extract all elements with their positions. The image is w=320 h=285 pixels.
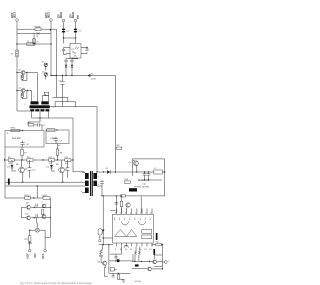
diode D4 bbox=[51, 160, 53, 165]
wire T1 top pins bbox=[43, 96, 49, 102]
wire into IC left bbox=[103, 237, 113, 239]
terminal J4 bbox=[74, 19, 77, 22]
resistor R21 bbox=[156, 243, 162, 245]
terminal J8 bbox=[164, 261, 167, 264]
wire U1 right pins bbox=[81, 48, 87, 54]
SECTION: oscillator bbox=[4, 144, 85, 199]
SECTION: AC input bbox=[11, 11, 57, 97]
winding T2 left b bbox=[85, 181, 89, 186]
wire mid bus bbox=[53, 97, 76, 106]
terminal J2 (neutral) bbox=[50, 19, 53, 22]
wire row218 bbox=[21, 217, 50, 219]
capacitor C4 bbox=[62, 49, 65, 50]
wire J4 down bbox=[75, 22, 77, 44]
wire U1 left pins bbox=[64, 48, 71, 54]
capacitor C24 bbox=[36, 214, 37, 217]
capacitor C11 bbox=[67, 160, 69, 178]
svg-text:12V: 12V bbox=[59, 14, 61, 19]
wire row268 vertical bbox=[132, 254, 134, 261]
capacitor C6 bbox=[62, 76, 64, 107]
svg-text:Tx: Tx bbox=[89, 199, 91, 201]
wire P1 feed bbox=[36, 218, 39, 228]
resistor R22 bbox=[100, 250, 103, 255]
terminal J6 bbox=[44, 249, 47, 252]
shield box bbox=[133, 159, 165, 176]
svg-text:s: s bbox=[168, 260, 169, 262]
capacitor C10 bbox=[29, 160, 31, 178]
resistor R11 bbox=[49, 159, 55, 161]
transistor Q4 bbox=[59, 167, 65, 173]
wire T1 bottom pins bbox=[32, 111, 49, 118]
wire osc right feed bbox=[73, 160, 85, 172]
core T1 bbox=[30, 105, 50, 108]
node B+ arrow bbox=[87, 74, 90, 77]
svg-text:SP.VMC BP.VMC: SP.VMC BP.VMC bbox=[134, 186, 150, 188]
connector blob2 bbox=[135, 264, 139, 266]
capacitor C27 bbox=[153, 249, 155, 255]
SECTION: driver transistors bbox=[16, 44, 47, 111]
resistor R13 bbox=[43, 197, 50, 199]
resistor R17 bbox=[29, 236, 31, 241]
wire J1 down bbox=[16, 22, 18, 45]
SECTION: rectifier and B+ bbox=[50, 29, 122, 173]
resistor R7 bbox=[21, 149, 23, 155]
wire center tap down bbox=[39, 118, 41, 122]
wire J3 down bbox=[63, 22, 65, 44]
svg-text:+12V: +12V bbox=[28, 253, 30, 259]
transistor Q13 bbox=[126, 203, 130, 207]
opamp triangles bbox=[115, 230, 127, 237]
svg-text:ERR.AMP: ERR.AMP bbox=[12, 137, 22, 140]
wire sec rail bbox=[32, 118, 74, 160]
wire drive B bbox=[5, 185, 85, 187]
wire Q2 collector bbox=[25, 91, 31, 102]
resistor R12 bbox=[65, 159, 71, 161]
SECTION: caption bbox=[20, 281, 92, 285]
wire rail3 bbox=[17, 43, 51, 45]
capacitor C2 bbox=[62, 29, 65, 30]
capacitor C3 bbox=[74, 29, 77, 30]
capacitor C13 bbox=[147, 174, 151, 176]
wire link bbox=[64, 37, 76, 39]
transistor Q5 bbox=[134, 161, 139, 166]
trimmer P2 bbox=[99, 240, 101, 242]
wire T2 left pins bbox=[82, 173, 85, 193]
capacitor C22 bbox=[8, 179, 10, 185]
wire drive A bbox=[5, 181, 85, 183]
trimmer P1 bbox=[35, 228, 39, 232]
SECTION: bottom right bbox=[97, 159, 169, 283]
winding T2 right b bbox=[93, 181, 97, 186]
transistor Q6 bbox=[102, 261, 106, 265]
svg-text:SECT: SECT bbox=[49, 11, 51, 18]
wire row261 bbox=[109, 260, 133, 262]
diode D12 bbox=[65, 65, 67, 68]
SECTION: IC U2 bbox=[98, 179, 153, 251]
wire pin1 feed bbox=[115, 196, 117, 213]
wire bottom edge bbox=[101, 195, 165, 197]
diode D3 bbox=[11, 160, 13, 165]
wire out bus bbox=[110, 171, 164, 173]
wire row198 bbox=[5, 197, 50, 199]
wire row207 bbox=[21, 206, 50, 208]
wire row254 bbox=[110, 253, 122, 255]
capacitor C18 bbox=[115, 202, 119, 204]
capacitor C21 bbox=[64, 60, 67, 62]
wire rail2 bbox=[17, 33, 51, 35]
capacitor C26 bbox=[124, 246, 128, 248]
winding T2 right a bbox=[93, 173, 97, 179]
capacitor C25 bbox=[99, 255, 102, 256]
transistor Q14 bbox=[98, 229, 102, 235]
capacitor C19 bbox=[112, 276, 115, 277]
wire row244 bbox=[99, 244, 113, 246]
transistor Q11 bbox=[27, 216, 31, 220]
wire B+ to right bbox=[90, 76, 115, 173]
box volt ref bbox=[46, 130, 69, 144]
capacitor C28 bbox=[70, 60, 73, 62]
capacitor C9 bbox=[54, 139, 58, 141]
ground G2 bbox=[122, 280, 126, 283]
svg-text:REG.: REG. bbox=[11, 128, 16, 130]
terminal J1 (line) bbox=[16, 19, 19, 22]
wire bus268 bbox=[132, 267, 147, 269]
transistor Q3 bbox=[19, 167, 25, 173]
svg-text:12V: 12V bbox=[71, 14, 73, 19]
capacitor C16 bbox=[28, 242, 32, 243]
svg-text:B+ 14+ OV: B+ 14+ OV bbox=[138, 180, 149, 182]
box error amp bbox=[5, 131, 44, 148]
resistor R2 bbox=[21, 75, 23, 79]
wire gnd bus bbox=[138, 179, 162, 181]
wire left feed bbox=[17, 110, 30, 112]
resistor R10 bbox=[27, 159, 33, 161]
resistor R8 bbox=[56, 149, 58, 155]
winding T2 left c bbox=[85, 188, 89, 194]
wire Q1 collector bbox=[25, 73, 37, 102]
svg-text:14.0.01: 14.0.01 bbox=[135, 281, 143, 283]
svg-text:OV.C: OV.C bbox=[43, 253, 45, 259]
capacitor C12 bbox=[143, 174, 147, 176]
wire P1 right to J6 bbox=[40, 230, 51, 249]
winding T1 secondary bbox=[30, 109, 34, 111]
terminal J7 bbox=[28, 249, 31, 252]
wire left edge down bbox=[4, 147, 6, 198]
diode D5 bbox=[107, 170, 110, 174]
resistor R1 bbox=[16, 50, 18, 57]
capacitor C8 bbox=[20, 143, 24, 145]
IC U2 box bbox=[113, 214, 154, 243]
core T2 bbox=[90, 171, 91, 196]
capacitor C7 bbox=[38, 123, 40, 126]
winding T1 primary b bbox=[41, 101, 49, 104]
resistor R27 bbox=[117, 275, 119, 280]
SECTION: output bbox=[101, 159, 166, 197]
svg-text:220V: 220V bbox=[12, 12, 14, 18]
capacitor C5 bbox=[86, 48, 88, 54]
wire U1 bottom pins bbox=[66, 57, 78, 60]
resistor R18 bbox=[125, 181, 131, 183]
pin stubs bottom bbox=[117, 243, 153, 247]
wire right rail bbox=[164, 159, 166, 196]
inductor L2 bbox=[154, 170, 163, 174]
wire T2 right pins bbox=[97, 172, 107, 186]
thermistor TS bbox=[37, 32, 40, 35]
diode D11 bbox=[102, 230, 105, 233]
transistor Q15 bbox=[153, 260, 157, 264]
winding T2 left a bbox=[85, 173, 89, 179]
transistor Q16 bbox=[148, 267, 152, 271]
blocks right bbox=[142, 230, 152, 234]
wire tap to boxes bbox=[28, 122, 42, 130]
svg-text:47k: 47k bbox=[8, 163, 11, 165]
pin stubs top bbox=[117, 209, 153, 215]
transistor Q10 bbox=[42, 204, 46, 208]
svg-text:220V: 220V bbox=[46, 12, 48, 18]
choke L1 bbox=[27, 43, 36, 46]
svg-text:24V: 24V bbox=[34, 253, 37, 258]
SECTION: reg boxes bbox=[5, 122, 69, 198]
transistor Q9 bbox=[27, 205, 31, 209]
svg-text:310V: 310V bbox=[91, 79, 96, 81]
winding T1 primary a bbox=[31, 101, 39, 104]
wire rows link bbox=[20, 207, 22, 218]
wire rail160 bbox=[5, 159, 74, 161]
wire row273 bbox=[109, 272, 130, 274]
connector blob bbox=[129, 188, 137, 191]
resistor R29 bbox=[138, 250, 140, 254]
vertical left of IC bbox=[102, 196, 104, 245]
svg-text:FUSIB.: FUSIB. bbox=[35, 26, 42, 28]
resistor R3 bbox=[21, 93, 23, 97]
capacitor C23 bbox=[36, 204, 37, 207]
resistor R4 bbox=[28, 124, 33, 126]
wire x51 drop bbox=[50, 44, 52, 76]
wire P1 left bbox=[30, 229, 35, 231]
svg-text:SECT: SECT bbox=[15, 11, 17, 18]
terminal J3 bbox=[62, 19, 65, 22]
wire J2 down bbox=[50, 22, 52, 45]
resistor R30 bbox=[121, 195, 126, 197]
wire rail75 bbox=[51, 75, 87, 77]
resistor R19 bbox=[120, 201, 122, 207]
diode D13 bbox=[71, 65, 73, 68]
SECTION: transformer T2 bbox=[81, 171, 107, 201]
resistor R9 bbox=[8, 159, 14, 161]
resistor R25 bbox=[25, 197, 31, 199]
fuse F1 bbox=[35, 28, 41, 31]
capacitor C17 bbox=[100, 182, 104, 184]
wire right drop bbox=[49, 198, 51, 237]
IC U1 bbox=[70, 44, 81, 59]
wire left vertical bbox=[16, 44, 18, 111]
wire bus261 bbox=[132, 260, 153, 262]
arcs inside bbox=[122, 222, 129, 225]
resistor R5 bbox=[11, 129, 20, 131]
transistor Q12 bbox=[42, 215, 46, 219]
SECTION: aux terminals + opto U1 bbox=[59, 11, 89, 58]
SECTION: transformer T1 bbox=[17, 92, 73, 160]
svg-text:AUX1: AUX1 bbox=[60, 11, 63, 18]
wire mid vertical bbox=[108, 245, 110, 274]
SECTION: feedback mid bbox=[5, 195, 51, 259]
component X1 bbox=[115, 254, 117, 256]
resistor R26 bbox=[41, 210, 43, 215]
resistor R28 bbox=[135, 250, 137, 254]
varistor Z1 bbox=[33, 34, 35, 45]
crystal X2 bbox=[110, 268, 114, 271]
svg-text:AUX2: AUX2 bbox=[72, 11, 75, 18]
resistor R6 bbox=[47, 129, 55, 131]
svg-text:Fig. 14.04 : Schema de princip: Fig. 14.04 : Schema de principe de l'ali… bbox=[20, 281, 92, 285]
wire pin6 feed bbox=[140, 197, 142, 213]
